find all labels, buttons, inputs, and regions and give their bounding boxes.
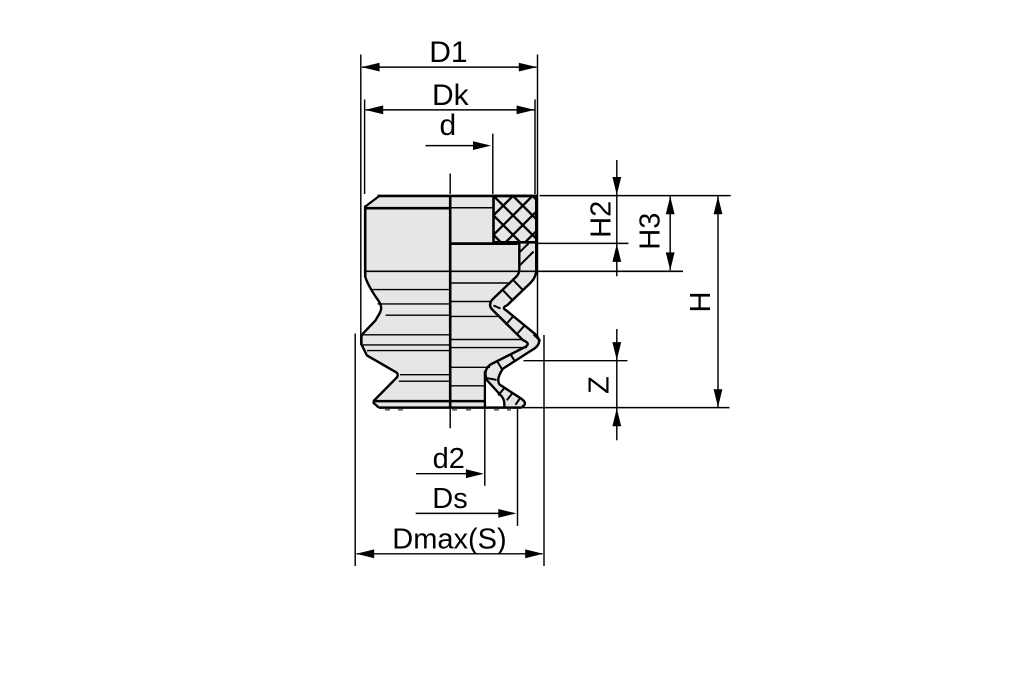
svg-text:H3: H3 xyxy=(635,213,667,250)
lip top edge xyxy=(375,400,485,403)
svg-text:d: d xyxy=(439,109,456,142)
D1 extension line right xyxy=(537,55,539,338)
Dmax(S) extension line right xyxy=(543,335,545,566)
svg-text:Ds: Ds xyxy=(432,483,467,515)
dimension line d2 xyxy=(416,473,482,475)
top reference extension line (H2/H3/H) xyxy=(540,195,731,197)
suction state dashes under lip xyxy=(385,409,390,411)
svg-text:H2: H2 xyxy=(586,201,618,238)
Dk extension line left xyxy=(364,99,366,194)
dimension line Dk xyxy=(366,109,535,111)
d extension line xyxy=(492,134,494,194)
dimension line D1 xyxy=(362,66,537,68)
insert seat edge xyxy=(449,242,518,245)
flange right edge xyxy=(535,196,538,269)
dimension line H xyxy=(717,196,719,407)
dimension line Z xyxy=(616,329,618,440)
svg-text:H: H xyxy=(685,292,717,313)
dimension line Ds xyxy=(416,512,514,514)
centerline stub below body xyxy=(449,408,451,428)
svg-text:Dk: Dk xyxy=(432,79,470,112)
body right: flange section area (gray fill) xyxy=(450,196,536,244)
dimension line H2 xyxy=(616,160,618,276)
Dk extension line right xyxy=(534,99,536,194)
fold contour lines, right interior xyxy=(450,282,511,284)
flange left edge (Dk diameter) xyxy=(364,206,367,278)
svg-text:Z: Z xyxy=(584,376,616,394)
svg-text:Dmax(S): Dmax(S) xyxy=(392,524,506,556)
bellows left silhouette outline xyxy=(361,277,397,408)
body right: interior + bellows wall section (gray fill) xyxy=(450,242,539,408)
mouth edge (d2 diameter, right section) xyxy=(484,371,486,408)
top-left chamfer edge xyxy=(365,196,379,206)
flange underside edge (left) xyxy=(365,207,450,210)
flange underside edge (right, to hole) xyxy=(450,207,493,209)
body top face edge xyxy=(378,195,538,198)
Dmax(S) extension line left xyxy=(354,334,356,567)
dimension line Dmax(S) xyxy=(357,553,543,555)
D1 extension line left xyxy=(360,55,362,346)
d2 extension line xyxy=(484,409,486,486)
svg-text:D1: D1 xyxy=(429,36,467,69)
white gap between lip wall and mouth edge xyxy=(486,378,505,407)
suction cup body, left exterior silhouette (gray fill) xyxy=(361,196,450,408)
bottom reference extension line (Z/H) xyxy=(521,407,730,409)
centerline / section boundary xyxy=(449,195,452,408)
bellows wall edge E1 (inner-surface line) xyxy=(485,244,527,407)
dimension line H3 xyxy=(669,196,671,270)
section hatch marks on bellows wall xyxy=(519,252,533,266)
Z top reference extension xyxy=(524,360,628,362)
flange underside line + H3 reference extension xyxy=(365,270,683,272)
Ds extension line xyxy=(517,409,519,526)
fold contour lines, left exterior xyxy=(372,289,450,291)
svg-text:d2: d2 xyxy=(433,443,465,475)
centerline stub above body xyxy=(449,174,451,195)
H2 bottom reference extension xyxy=(538,242,629,244)
dimension line d xyxy=(426,145,489,147)
bottom lip face edge xyxy=(379,406,522,409)
bellows wall edge E2 (outer-surface line) xyxy=(498,255,539,407)
